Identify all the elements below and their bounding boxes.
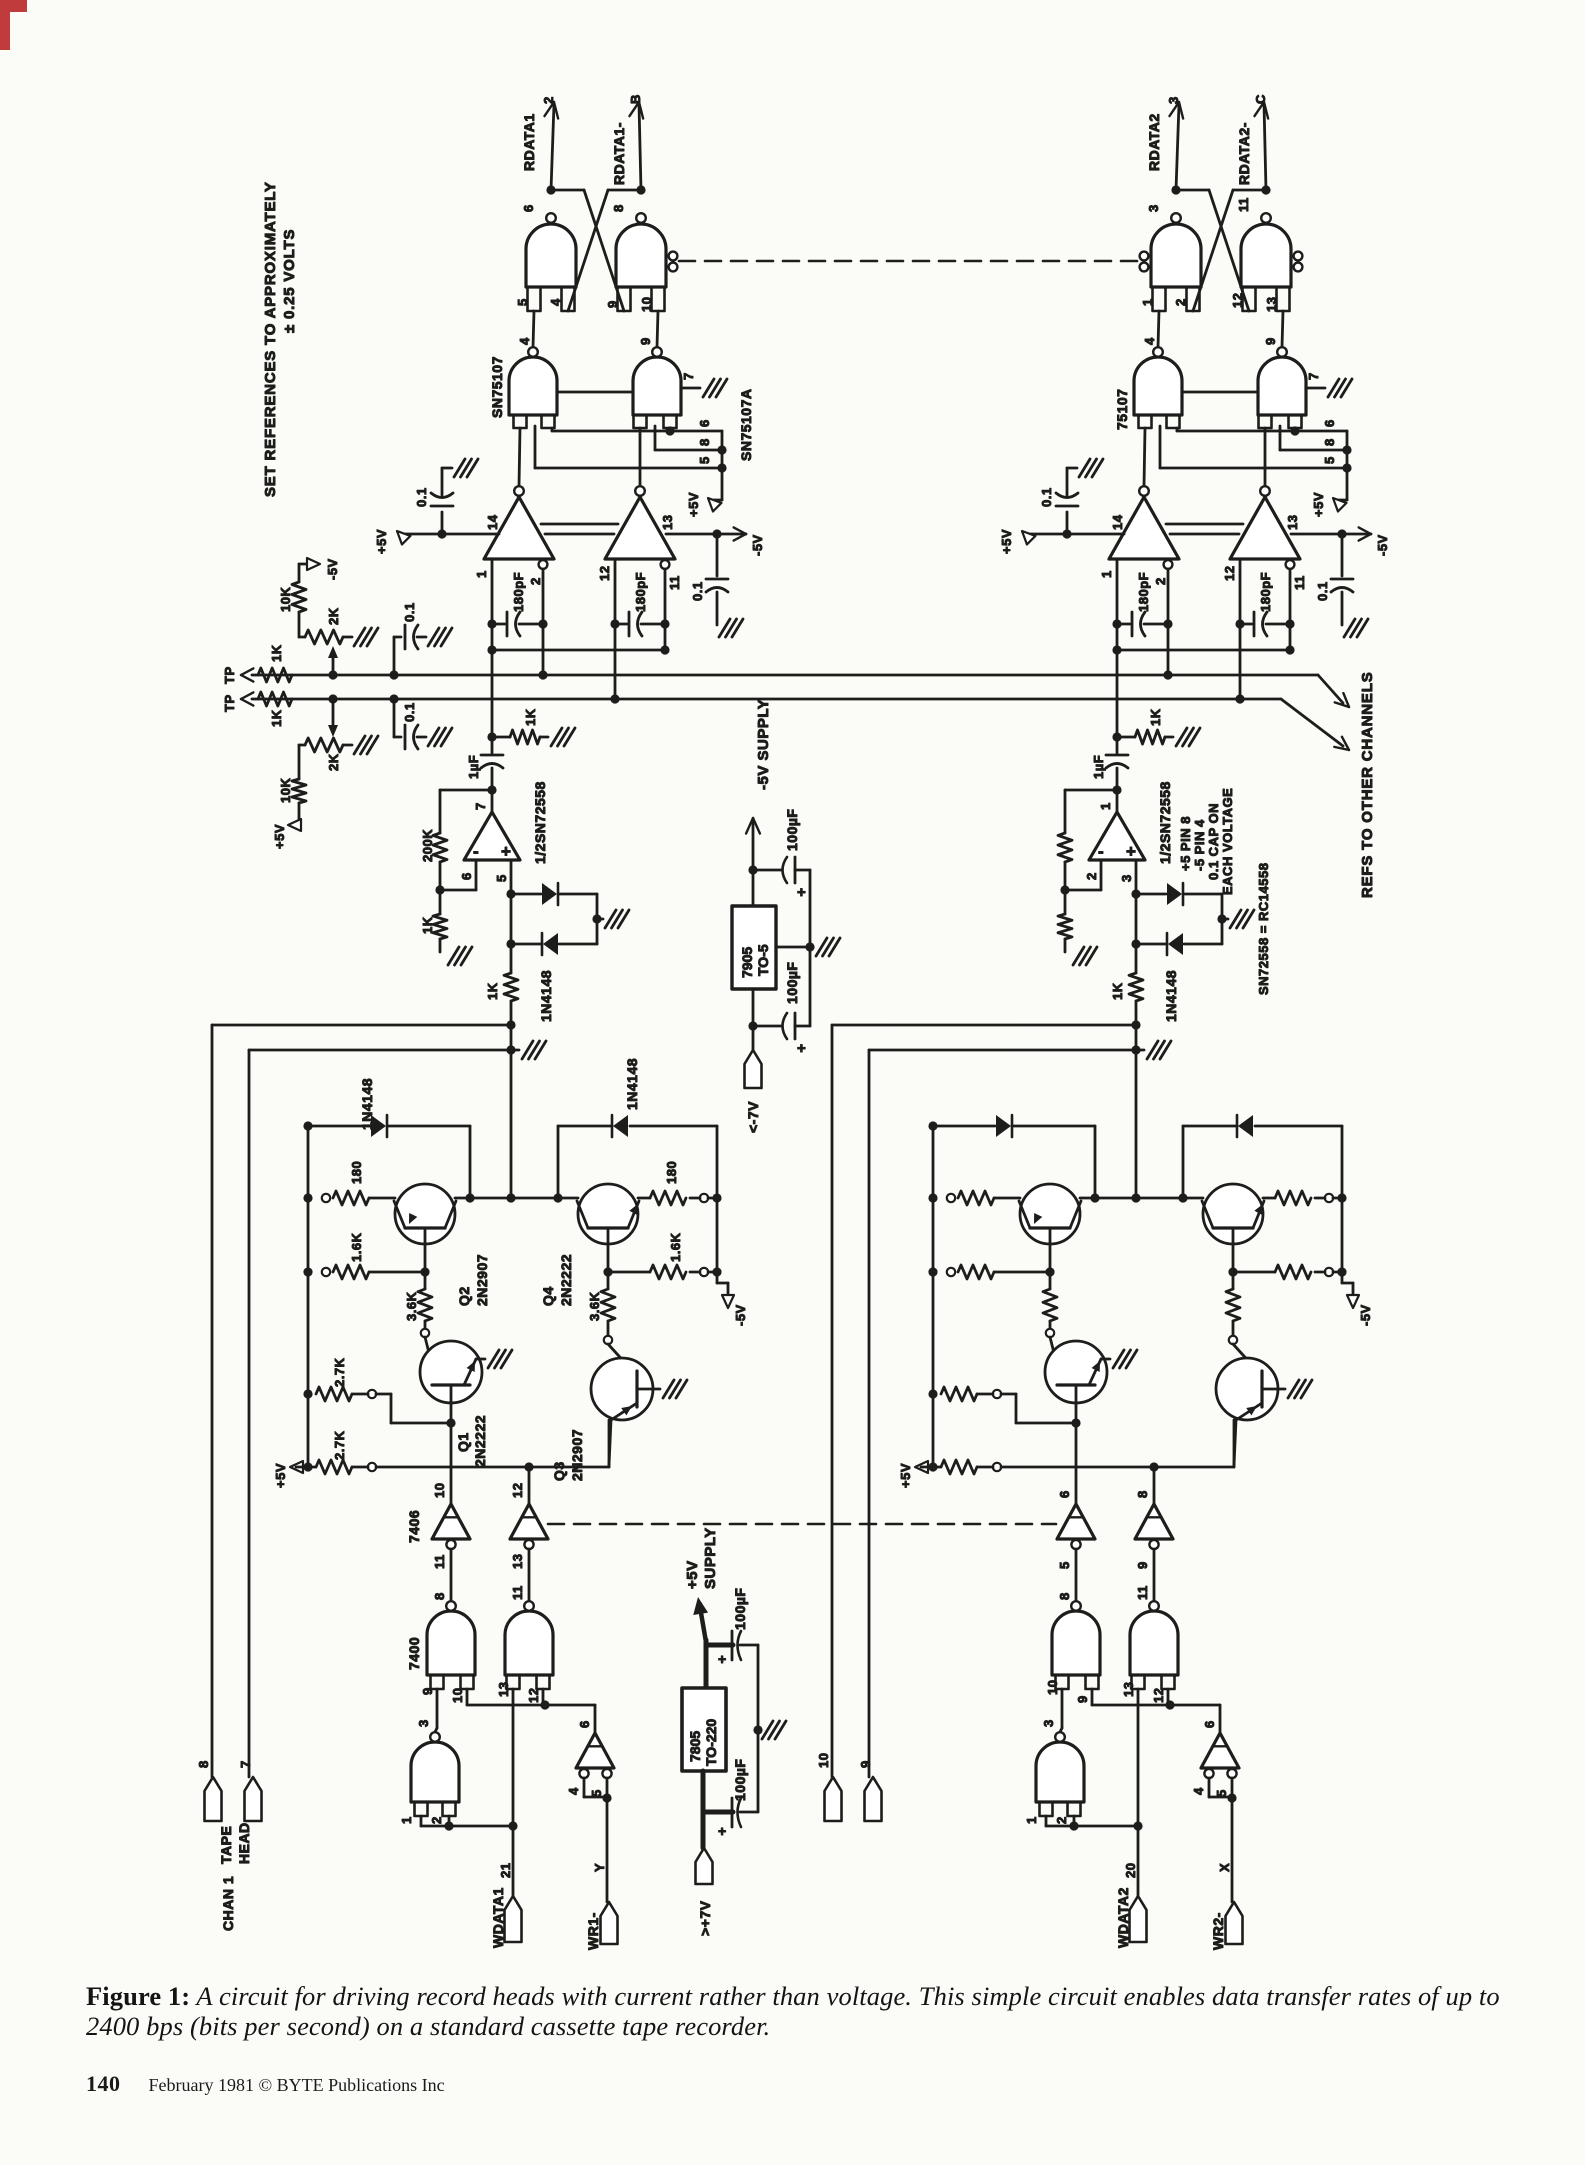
node Q2 collector bbox=[1090, 1193, 1099, 1202]
svg-text:1N4148: 1N4148 bbox=[1163, 970, 1179, 1022]
svg-text:+: + bbox=[501, 842, 511, 861]
resistor 200K (feedback) bbox=[1058, 833, 1072, 862]
bubble comp B pin11 bbox=[1286, 560, 1295, 569]
node 7905 output bbox=[748, 865, 757, 874]
wire pin7 to ground bbox=[681, 387, 700, 390]
arrow -5V (driver) bbox=[1347, 1295, 1359, 1308]
node bus2-pot2 bbox=[328, 694, 337, 703]
wire comp A pin1 leg bbox=[1116, 559, 1119, 737]
svg-text:0.1: 0.1 bbox=[1315, 581, 1330, 601]
wire cap to ground rail bbox=[740, 1644, 758, 1647]
svg-text:2: 2 bbox=[1084, 872, 1099, 880]
arrow +5V SUPPLY bbox=[693, 1597, 708, 1615]
ground (head line) bbox=[1136, 1049, 1144, 1052]
svg-text:8: 8 bbox=[697, 438, 712, 446]
svg-text:+5V: +5V bbox=[374, 529, 389, 554]
resistor 2.7K (lower) bbox=[921, 1466, 941, 1469]
nand gate 75107 B bbox=[633, 357, 681, 415]
resistor 1K (TP1) bbox=[258, 668, 292, 682]
transistor Q3 2N2907 bbox=[1233, 1344, 1262, 1376]
svg-text:TP: TP bbox=[222, 694, 237, 712]
svg-text:2N2222: 2N2222 bbox=[472, 1415, 488, 1467]
svg-text:-5V SUPPLY: -5V SUPPLY bbox=[755, 699, 772, 790]
svg-text:-5V: -5V bbox=[750, 534, 765, 556]
svg-text:12: 12 bbox=[597, 566, 612, 581]
wire WDATA line bbox=[1137, 1826, 1140, 1896]
svg-text:1.6K: 1.6K bbox=[349, 1232, 364, 1262]
pot 2K (lower) bbox=[332, 699, 335, 730]
svg-text:12: 12 bbox=[1222, 566, 1237, 581]
svg-text:20: 20 bbox=[1123, 1863, 1138, 1878]
wire signal down to drivers bbox=[1135, 1025, 1138, 1196]
resistor 1K (to ground) bbox=[1117, 736, 1135, 739]
svg-text:X: X bbox=[1217, 1863, 1232, 1872]
capacitor 0.1 (comp B bypass) bbox=[1341, 534, 1344, 576]
connector TP2 bbox=[241, 699, 253, 706]
svg-text:+5 PIN 8: +5 PIN 8 bbox=[1178, 816, 1193, 871]
svg-text:3: 3 bbox=[1119, 874, 1134, 882]
connector WR- bbox=[1226, 1902, 1243, 1944]
node latch out A bbox=[1171, 185, 1180, 194]
ground (Q1 emitter) bbox=[488, 1350, 499, 1368]
node bus1-pot1 bbox=[328, 670, 337, 679]
svg-text:Y: Y bbox=[592, 1863, 607, 1872]
ground (diodes) bbox=[597, 918, 603, 921]
wire gate3 right leg (pin6) bbox=[551, 428, 554, 431]
nand gate latch A bbox=[1151, 224, 1201, 287]
svg-text:2K: 2K bbox=[326, 753, 341, 771]
resistor 180 (Q2) bbox=[928, 1193, 937, 1202]
node signal-collector bbox=[1131, 1193, 1140, 1202]
svg-text:6: 6 bbox=[521, 204, 536, 212]
node diode loop Q4 bbox=[1178, 1193, 1187, 1202]
node pins1-2 tie bbox=[444, 1821, 453, 1830]
node head line B / ground bbox=[506, 1045, 515, 1054]
bubble comp B pin11 bbox=[661, 560, 670, 569]
arrow RDATA- out bbox=[1254, 102, 1264, 116]
svg-text:0.1: 0.1 bbox=[690, 581, 705, 601]
capacitor 180pF (comp A) bbox=[1112, 619, 1121, 628]
wire strobe comparators bbox=[541, 523, 618, 526]
svg-text:TP: TP bbox=[222, 666, 237, 684]
wire gate4 right leg (pin6 join) bbox=[669, 428, 672, 431]
wire 7406-2 to 7400-2 bbox=[528, 1549, 531, 1601]
wire 7406-1 to 7400-1 bbox=[1075, 1549, 1078, 1601]
wire latchA-in to gate3 out bbox=[533, 311, 534, 347]
wire gate3 left leg to comparator A bbox=[1144, 428, 1145, 486]
svg-text:7: 7 bbox=[1306, 372, 1321, 380]
svg-text:11: 11 bbox=[432, 1554, 447, 1569]
node -5V bypass bbox=[712, 529, 721, 538]
wire pin7 to ground bbox=[1306, 387, 1325, 390]
svg-text:9: 9 bbox=[1135, 1561, 1150, 1569]
svg-text:2: 2 bbox=[1173, 298, 1188, 306]
nand gate latch B bbox=[1241, 224, 1291, 287]
wire RDATA1- output bbox=[639, 104, 641, 190]
svg-text:1.6K: 1.6K bbox=[668, 1232, 683, 1262]
svg-text:3.6K: 3.6K bbox=[587, 1291, 602, 1321]
inverter 7406-2 bbox=[528, 1467, 531, 1504]
wire 7400-3 pin1 bbox=[420, 1816, 423, 1826]
svg-text:11: 11 bbox=[1292, 575, 1307, 590]
connector tape head A bbox=[205, 1777, 222, 1821]
nand gate 75107 B bbox=[1258, 357, 1306, 415]
arrow refs bus2 bbox=[1342, 737, 1349, 750]
arrow -5V (driver) bbox=[722, 1295, 734, 1308]
svg-text:SUPPLY: SUPPLY bbox=[702, 1527, 719, 1589]
nand gate 75107 A bbox=[1134, 357, 1182, 415]
wire 7406-1 to 7400-1 bbox=[450, 1549, 453, 1601]
wire +5V drop bbox=[721, 431, 724, 500]
page corner mark (red) bbox=[0, 0, 27, 12]
resistor 1K (signal) bbox=[1135, 944, 1138, 973]
ground (Q1 emitter) bbox=[1113, 1350, 1124, 1368]
svg-text:1K: 1K bbox=[523, 708, 538, 726]
wire latch cross B bbox=[608, 189, 641, 192]
svg-text:2.7K: 2.7K bbox=[332, 1430, 347, 1460]
wire comp B pin12 leg bbox=[614, 559, 617, 699]
wiper arrow pot1 bbox=[332, 652, 335, 675]
svg-text:B: B bbox=[628, 94, 643, 104]
wire latch cross B bbox=[1233, 189, 1266, 192]
svg-text:SET REFERENCES TO APPROXIMATEL: SET REFERENCES TO APPROXIMATELY bbox=[262, 181, 279, 497]
comparator A (pin14) bbox=[514, 486, 524, 496]
svg-text:1/2SN72558: 1/2SN72558 bbox=[532, 781, 548, 864]
connector TP1 bbox=[241, 675, 253, 682]
svg-text:CHAN 1: CHAN 1 bbox=[220, 1876, 236, 1931]
svg-text:9: 9 bbox=[1075, 1695, 1090, 1703]
connector WDATA bbox=[1130, 1896, 1147, 1942]
node WR line bbox=[602, 1793, 611, 1802]
wire cross comp A-B bbox=[492, 649, 665, 652]
nand gate latch A bbox=[526, 224, 576, 287]
buffer gate (WR) bbox=[576, 1733, 614, 1768]
node head line A bbox=[1131, 1020, 1140, 1029]
svg-text:200K: 200K bbox=[420, 829, 435, 862]
resistor 10K (lower) bbox=[298, 745, 301, 779]
ground (Q3 base) bbox=[1288, 1380, 1299, 1398]
svg-text:1N4148: 1N4148 bbox=[359, 1078, 375, 1130]
wire 7400-1 pin9 leg bbox=[1061, 1689, 1064, 1728]
svg-text:1K: 1K bbox=[420, 916, 435, 934]
svg-text:TO-5: TO-5 bbox=[755, 944, 771, 976]
arrow -5V (comparator) bbox=[734, 527, 746, 534]
capacitor 0.1 (comp A bypass) bbox=[1066, 512, 1069, 534]
node WDATA junction bbox=[508, 1821, 517, 1830]
bubble comp A pin2 bbox=[1164, 560, 1173, 569]
svg-text:0.1: 0.1 bbox=[402, 602, 417, 622]
svg-text:8: 8 bbox=[1135, 1490, 1150, 1498]
node Q1 base bbox=[1071, 1418, 1080, 1427]
resistor 180 (Q4) bbox=[1263, 1197, 1275, 1200]
svg-text:9: 9 bbox=[638, 337, 653, 345]
dashed net between 7406 sections bbox=[548, 1523, 1056, 1526]
arrow +5V (driver) bbox=[915, 1461, 928, 1473]
comparator A (pin14) bbox=[1139, 486, 1149, 496]
ground (head line) bbox=[511, 1049, 519, 1052]
node op-amp output bbox=[487, 785, 496, 794]
node pin5 bbox=[717, 463, 726, 472]
svg-text:6: 6 bbox=[1202, 1720, 1217, 1728]
diode 1N4148 (down) bbox=[510, 894, 513, 944]
svg-text:1K: 1K bbox=[1148, 708, 1163, 726]
capacitor 0.1 (comp B bypass) bbox=[716, 534, 719, 576]
svg-text:+: + bbox=[1126, 842, 1136, 861]
svg-text:+: + bbox=[718, 1651, 726, 1667]
connector WR- bbox=[601, 1902, 618, 1944]
node Q2 collector bbox=[465, 1193, 474, 1202]
node pin8 bbox=[1342, 445, 1351, 454]
wire 7400-1 pin10 leg bbox=[1091, 1689, 1094, 1705]
node comp B pin12 on bus2 bbox=[610, 694, 619, 703]
svg-text:3: 3 bbox=[1041, 1719, 1056, 1727]
svg-text:+: + bbox=[797, 884, 806, 901]
transistor Q1 2N2222 bbox=[1050, 1337, 1062, 1385]
svg-text:100µF: 100µF bbox=[732, 1588, 748, 1630]
wire gate3 mid leg (pin5) bbox=[1159, 426, 1162, 468]
svg-text:+5V: +5V bbox=[898, 1463, 913, 1488]
svg-text:11: 11 bbox=[510, 1585, 525, 1600]
nand 7400-2 bbox=[1130, 1611, 1178, 1675]
capacitor 1uF bbox=[491, 737, 494, 753]
svg-text:2N2907: 2N2907 bbox=[474, 1254, 490, 1306]
capacitor 100uF (7905 out) bbox=[753, 869, 781, 872]
resistor 2.7K (lower) bbox=[296, 1466, 316, 1469]
wire 7400-2 pin13 leg bbox=[512, 1689, 515, 1826]
svg-text:7805: 7805 bbox=[687, 1731, 703, 1762]
node ground rail bbox=[753, 1725, 762, 1734]
svg-text:1K: 1K bbox=[1110, 982, 1125, 1000]
svg-text:1: 1 bbox=[399, 1816, 414, 1824]
svg-text:11: 11 bbox=[667, 575, 682, 590]
node WR line bbox=[1227, 1793, 1236, 1802]
comparator B (pin13) bbox=[1260, 486, 1270, 496]
wire op-amp pin6 bbox=[475, 860, 478, 890]
svg-text:>+7V: >+7V bbox=[697, 1900, 713, 1936]
wire comparator B to -5V bbox=[1291, 533, 1343, 536]
wire 7400-3 pin2 bbox=[1073, 1816, 1076, 1826]
svg-text:-5V: -5V bbox=[733, 1304, 748, 1326]
svg-text:21: 21 bbox=[498, 1863, 513, 1878]
bus TP line 2 bbox=[252, 698, 1281, 701]
transistor Q2 2N2907 bbox=[1020, 1184, 1080, 1244]
diode 1N4148 (Q4 loop) bbox=[557, 1126, 560, 1198]
svg-text:5: 5 bbox=[494, 874, 509, 882]
svg-text:1K: 1K bbox=[269, 644, 284, 662]
svg-text:REFS TO OTHER CHANNELS: REFS TO OTHER CHANNELS bbox=[1359, 671, 1376, 898]
wire Q1 base bbox=[450, 1385, 453, 1423]
bubbles strobe pair (latch B right) bbox=[1294, 252, 1303, 261]
node pin5 bbox=[1342, 463, 1351, 472]
ground (1K) bbox=[1176, 728, 1187, 746]
svg-text:1µF: 1µF bbox=[1091, 755, 1106, 779]
regulator 7805 TO-220 bbox=[682, 1688, 726, 1771]
svg-text:6: 6 bbox=[1322, 419, 1337, 427]
svg-text:9: 9 bbox=[420, 1687, 435, 1695]
wire RDATA2- output bbox=[1264, 104, 1266, 190]
transistor Q4 2N2222 bbox=[1203, 1184, 1263, 1244]
svg-text:3: 3 bbox=[1166, 96, 1181, 104]
node pin12-buffer bbox=[1165, 1700, 1174, 1709]
svg-text:100µF: 100µF bbox=[732, 1759, 748, 1801]
node signal-collector bbox=[506, 1193, 515, 1202]
wire gate4 mid leg (pin8) bbox=[654, 426, 657, 450]
wire 7400-3 pin2 bbox=[448, 1816, 451, 1826]
svg-text:180pF: 180pF bbox=[1258, 572, 1273, 612]
svg-text:1: 1 bbox=[474, 570, 489, 578]
wire latchB-in to gate4 out bbox=[1282, 311, 1283, 347]
svg-text:13: 13 bbox=[1285, 515, 1300, 530]
svg-text:+: + bbox=[797, 1040, 806, 1057]
resistor 1K (to ground) bbox=[492, 736, 510, 739]
svg-text:SN75107A: SN75107A bbox=[738, 389, 754, 462]
node 7406-2 input bbox=[524, 1462, 533, 1471]
svg-text:180pF: 180pF bbox=[511, 572, 526, 612]
svg-text:Q3: Q3 bbox=[551, 1461, 567, 1481]
wire gate4 mid leg (pin8) bbox=[1279, 426, 1282, 450]
wire to buffer bbox=[1170, 1704, 1220, 1707]
svg-text:WDATA1: WDATA1 bbox=[490, 1887, 506, 1948]
wire gate3 mid leg (pin5) bbox=[534, 426, 537, 468]
wire WR- line bbox=[1231, 1798, 1234, 1902]
wire strobe comparators bbox=[1166, 523, 1243, 526]
wire Q1 base to 7406-1 bbox=[1075, 1423, 1078, 1504]
resistor 1.6K (Q4 base) bbox=[603, 1267, 612, 1276]
node pins1-2 tie bbox=[1069, 1821, 1078, 1830]
svg-text:8: 8 bbox=[1322, 438, 1337, 446]
transistor Q3 2N2907 bbox=[608, 1344, 637, 1376]
ground (pin7) bbox=[1328, 379, 1339, 397]
svg-text:180pF: 180pF bbox=[633, 572, 648, 612]
svg-text:EACH VOLTAGE: EACH VOLTAGE bbox=[1220, 788, 1235, 895]
wire latchA-in to gate3 out bbox=[1158, 311, 1159, 347]
svg-text:4: 4 bbox=[1142, 337, 1157, 345]
nand 7400-1 bbox=[1052, 1611, 1100, 1675]
svg-text:5: 5 bbox=[1057, 1561, 1072, 1569]
node 0.1 bypass A bbox=[437, 529, 446, 538]
pot 2K (upper) bbox=[299, 636, 305, 639]
ground (7805) bbox=[762, 1721, 773, 1739]
node 0.1 bypass A bbox=[1062, 529, 1071, 538]
svg-text:7: 7 bbox=[681, 372, 696, 380]
resistor 2.7K (upper) bbox=[303, 1389, 312, 1398]
svg-text:9: 9 bbox=[1263, 337, 1278, 345]
resistor 1K (pin6 to ground) bbox=[1064, 890, 1067, 914]
wire to buffer bbox=[545, 1704, 595, 1707]
wire Q1 base to 7406-1 bbox=[450, 1423, 453, 1504]
svg-text:1: 1 bbox=[1140, 298, 1155, 306]
svg-text:2: 2 bbox=[1054, 1816, 1069, 1824]
wire +5V to comparator A bbox=[1026, 533, 1124, 536]
wire 7400-1 pin9 leg bbox=[436, 1689, 439, 1728]
wire Q4 base bbox=[607, 1228, 610, 1272]
connector WDATA bbox=[505, 1896, 522, 1942]
diode 1N4148 (Q2 loop) bbox=[928, 1121, 937, 1130]
wire gate3 right leg (pin6) bbox=[1176, 428, 1179, 431]
svg-text:9: 9 bbox=[605, 300, 620, 308]
node comp A pin2 on bus1 bbox=[538, 670, 547, 679]
transistor Q4 2N2222 bbox=[578, 1184, 638, 1244]
svg-text:-5V: -5V bbox=[1375, 534, 1390, 556]
connector tape head B bbox=[865, 1777, 882, 1821]
resistor 1K (signal) bbox=[510, 944, 513, 973]
wire Q1 base bbox=[1075, 1385, 1078, 1423]
capacitor 100uF (7805 in) bbox=[731, 1798, 734, 1827]
arrow +5V (pot2) bbox=[298, 803, 301, 825]
svg-text:2.7K: 2.7K bbox=[332, 1357, 347, 1387]
svg-text:10: 10 bbox=[816, 1753, 831, 1768]
svg-text:7400: 7400 bbox=[406, 1637, 422, 1670]
wire op-amp pin6 bbox=[1100, 860, 1103, 890]
wire latch cross A bbox=[1176, 189, 1209, 192]
svg-text:6: 6 bbox=[459, 872, 474, 880]
node WDATA junction bbox=[1133, 1821, 1142, 1830]
node 7406-2 input bbox=[1149, 1462, 1158, 1471]
node latch out B bbox=[1261, 185, 1270, 194]
svg-text:RDATA1-: RDATA1- bbox=[611, 122, 627, 185]
diode 1N4148 (down) bbox=[1135, 894, 1138, 944]
arrow +5V (driver) bbox=[290, 1461, 303, 1473]
capacitor 1uF bbox=[1116, 737, 1119, 753]
svg-text:14: 14 bbox=[1110, 514, 1125, 530]
wire 7400-1 pin10 leg bbox=[466, 1689, 469, 1705]
svg-text:180: 180 bbox=[664, 1161, 679, 1184]
svg-text:9: 9 bbox=[858, 1760, 873, 1768]
svg-text:+5V: +5V bbox=[686, 492, 701, 517]
wire 7400-3 pin1 bbox=[1045, 1816, 1048, 1826]
capacitor 100uF (7905 in) bbox=[753, 1025, 781, 1028]
svg-text:14: 14 bbox=[485, 514, 500, 530]
diode 1N4148 (up) bbox=[1136, 893, 1166, 896]
resistor 1K (TP2) bbox=[258, 692, 292, 706]
arrow RDATA out bbox=[1169, 102, 1179, 116]
svg-text:2N2222: 2N2222 bbox=[558, 1254, 574, 1306]
wire +5V row to Q3 bbox=[529, 1466, 609, 1469]
svg-text:8: 8 bbox=[611, 204, 626, 212]
node 1uF bbox=[487, 732, 496, 741]
wire strobe between gates bbox=[1182, 391, 1258, 394]
resistor 1.6K (Q4 base) bbox=[1228, 1267, 1237, 1276]
wire Q2 base bbox=[1049, 1228, 1052, 1272]
svg-text:2: 2 bbox=[429, 1816, 444, 1824]
svg-text:RDATA2: RDATA2 bbox=[1146, 113, 1162, 171]
svg-text:1/2SN72558: 1/2SN72558 bbox=[1157, 781, 1173, 864]
connector +7V input bbox=[696, 1848, 713, 1884]
svg-text:10: 10 bbox=[639, 297, 654, 312]
capacitor 0.1 (bus1 bypass) bbox=[389, 670, 398, 679]
svg-text:180: 180 bbox=[349, 1161, 364, 1184]
inverter 7406-1 bbox=[432, 1504, 470, 1539]
ground (comp B bypass) bbox=[1344, 619, 1355, 637]
op-amp 1/2 SN72558 bbox=[1116, 790, 1119, 812]
ground (7905) bbox=[816, 938, 827, 956]
resistor 3.6K (Q1) bbox=[424, 1272, 427, 1289]
svg-text:10K: 10K bbox=[278, 587, 293, 612]
nand 7400-2 bbox=[505, 1611, 553, 1675]
svg-text:+5V: +5V bbox=[272, 824, 287, 849]
ground (comp A bypass) bbox=[1067, 467, 1077, 470]
node diode join bbox=[1217, 914, 1226, 923]
resistor 200K (feedback) bbox=[433, 833, 447, 862]
dashed net between latch gates (channel1 to channel2) bbox=[679, 260, 1137, 263]
capacitor 180pF (comp B) bbox=[610, 619, 619, 628]
bubbles strobe pair (latch B right) bbox=[669, 252, 678, 261]
wire signal down to drivers bbox=[510, 1025, 513, 1196]
rail left (driver block) bbox=[307, 1126, 310, 1467]
svg-text:Q2: Q2 bbox=[456, 1286, 472, 1306]
wire 7805 input (thick) bbox=[701, 1771, 706, 1848]
connector tape head B bbox=[245, 1777, 262, 1821]
